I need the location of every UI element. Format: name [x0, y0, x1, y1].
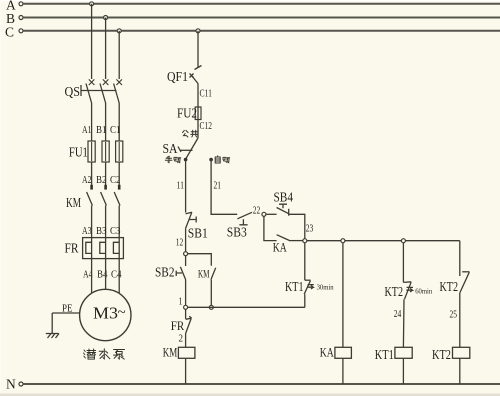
neutral bus N — [19, 382, 500, 386]
node KM aux junction — [209, 305, 213, 309]
svg-text:SA: SA — [163, 142, 179, 157]
泵 — [114, 350, 125, 360]
wire KM coil to N — [185, 358, 187, 384]
stop button SB1 — [186, 212, 197, 252]
relay coil KA — [335, 347, 352, 358]
svg-text:KM: KM — [198, 267, 210, 281]
wire FU2 to SA — [197, 120, 199, 139]
fuse FU1 pole 2 — [102, 141, 109, 162]
动 — [174, 157, 181, 162]
svg-text:B3: B3 — [96, 225, 107, 237]
button SB3 — [237, 212, 262, 225]
svg-text:C4: C4 — [111, 269, 122, 281]
FR heater pole 3 — [113, 238, 119, 259]
phase bus B — [19, 16, 500, 20]
svg-text:SB4: SB4 — [274, 191, 294, 206]
svg-text:SB3: SB3 — [227, 226, 247, 241]
svg-text:C3: C3 — [110, 225, 121, 237]
label 手动 (manual) — [165, 156, 180, 162]
svg-text:KT2: KT2 — [385, 285, 404, 300]
node 22 — [262, 212, 266, 216]
control tap wire from C — [197, 31, 199, 68]
junction on A — [90, 2, 94, 6]
svg-text:KT1: KT1 — [285, 280, 304, 295]
start button SB2 — [176, 256, 185, 306]
wire FU1 to KM pole 1 — [91, 162, 93, 188]
junction KT1 branch — [401, 239, 405, 243]
svg-text:FU2: FU2 — [177, 107, 197, 122]
svg-text:24: 24 — [394, 309, 402, 320]
junction on C — [117, 29, 121, 33]
wire FU1 to KM pole 2 — [105, 162, 107, 188]
wire node12 to KM aux branch — [188, 254, 212, 266]
wire QS to FU1 pole 2 — [105, 103, 107, 141]
junction KA branch — [341, 239, 345, 243]
svg-text:FU1: FU1 — [69, 146, 88, 161]
svg-text:B4: B4 — [97, 269, 108, 281]
手 — [165, 156, 172, 162]
PE wire — [52, 313, 79, 334]
wire FR to motor 2 — [105, 259, 107, 290]
svg-text:22: 22 — [253, 206, 260, 217]
wire FR to motor 1 — [91, 259, 93, 294]
node 12 — [184, 252, 188, 256]
fuse FU2 — [195, 107, 201, 120]
svg-text:A2: A2 — [82, 174, 92, 186]
共 — [191, 130, 198, 137]
wire KA coil to N — [342, 358, 344, 384]
contactor KM main pole 1 — [87, 185, 93, 238]
wire KA coil branch — [342, 243, 344, 348]
node 23 — [303, 239, 307, 243]
svg-text:FR: FR — [65, 242, 80, 257]
junction on B — [104, 16, 108, 20]
公 — [183, 130, 189, 137]
breaker QF1 — [190, 66, 202, 108]
wire A drop to QS — [91, 4, 93, 79]
svg-text:PE: PE — [62, 303, 73, 315]
svg-text:C: C — [5, 25, 14, 40]
relay contact KA — [277, 235, 303, 241]
KM auxiliary contact — [211, 266, 216, 308]
timer coil KT2 — [453, 347, 470, 358]
动 — [223, 157, 230, 162]
QS linkage bar — [81, 85, 116, 96]
svg-text:C12: C12 — [200, 121, 213, 132]
disconnect switch QS pole 2 — [100, 79, 108, 103]
label 公共 (common) — [183, 130, 198, 137]
svg-text:C1: C1 — [110, 124, 121, 136]
wire C drop to QS — [118, 31, 120, 79]
svg-text:KA: KA — [320, 345, 334, 360]
motor M3 circle — [80, 289, 131, 340]
wire FU1 to KM pole 3 — [118, 162, 120, 188]
FR trip contact — [186, 309, 192, 347]
潜 — [84, 349, 96, 359]
svg-text:M3: M3 — [93, 304, 118, 323]
svg-text:KA: KA — [273, 240, 287, 255]
SA contact 自动 dot — [209, 158, 213, 162]
svg-text:A3: A3 — [82, 225, 92, 237]
phase bus A — [19, 2, 500, 6]
ground symbol — [46, 334, 59, 339]
wire auto branch node 21 — [211, 160, 237, 215]
svg-text:12: 12 — [176, 238, 184, 249]
label 潜水泵 (submersible pump) — [84, 349, 125, 359]
phase bus C — [19, 29, 500, 33]
FR heater pole 2 — [100, 238, 106, 259]
node 1 — [184, 305, 188, 309]
wire KT1 coil to N — [402, 358, 404, 384]
wire node22 down to KA branch — [264, 216, 277, 240]
timer coil KT1 — [395, 347, 412, 358]
main rung wire right — [307, 240, 460, 242]
contactor KM main pole 3 — [114, 185, 120, 238]
wire FR to motor 3 — [118, 259, 120, 294]
svg-text:QF1: QF1 — [167, 70, 188, 85]
svg-text:23: 23 — [306, 224, 314, 235]
svg-text:QS: QS — [65, 85, 81, 100]
wire node1 horizontal — [188, 306, 305, 308]
svg-text:30min: 30min — [317, 283, 334, 292]
svg-text:B2: B2 — [96, 174, 107, 186]
wire manual branch node 11 — [185, 160, 187, 213]
junction on C control tap — [196, 29, 200, 33]
timer contact KT1 — [304, 243, 314, 308]
svg-text:~: ~ — [118, 305, 126, 321]
svg-text:KM: KM — [66, 196, 81, 211]
自 — [215, 156, 220, 163]
thermal relay FR box — [83, 238, 124, 259]
label 自动 (auto) — [215, 156, 230, 163]
svg-text:KM: KM — [163, 345, 178, 360]
wire QS to FU1 pole 3 — [118, 103, 120, 141]
timer contact KT2 over KT1 coil — [403, 243, 413, 348]
svg-text:11: 11 — [177, 181, 185, 192]
wires through FU1 — [92, 142, 120, 161]
disconnect switch QS pole 1 — [86, 79, 94, 103]
wire B drop to QS — [105, 18, 107, 80]
wire KT2 coil to N — [459, 358, 461, 384]
svg-text:21: 21 — [214, 181, 222, 192]
svg-text:2: 2 — [179, 334, 184, 345]
selector switch SA — [178, 138, 198, 159]
svg-text:KT2: KT2 — [432, 348, 451, 363]
contactor KM main pole 2 — [101, 185, 107, 238]
svg-text:SB2: SB2 — [155, 266, 175, 281]
FR heater pole 1 — [86, 238, 92, 259]
fuse FU1 pole 1 — [88, 141, 95, 162]
wire QS to FU1 pole 1 — [91, 103, 93, 141]
svg-text:KT1: KT1 — [375, 348, 394, 363]
svg-text:FR: FR — [171, 318, 185, 333]
svg-text:A1: A1 — [82, 124, 92, 136]
水 — [99, 349, 110, 359]
fuse FU1 pole 3 — [116, 141, 123, 162]
stop button SB4 — [277, 204, 305, 239]
SA contact 手动 dot — [184, 158, 188, 162]
svg-text:SB1: SB1 — [188, 227, 208, 242]
svg-text:N: N — [6, 377, 16, 392]
svg-text:25: 25 — [450, 310, 458, 321]
svg-text:C11: C11 — [200, 89, 213, 100]
timer contact KT2 over KT2 coil — [460, 241, 470, 348]
svg-text:B1: B1 — [96, 124, 107, 136]
disconnect switch QS pole 3 — [114, 79, 122, 103]
wire node22 to SB4 — [266, 213, 277, 215]
svg-text:60min: 60min — [415, 287, 432, 296]
svg-text:1: 1 — [179, 297, 183, 308]
svg-text:KT2: KT2 — [440, 280, 459, 295]
contactor coil KM — [178, 347, 195, 358]
